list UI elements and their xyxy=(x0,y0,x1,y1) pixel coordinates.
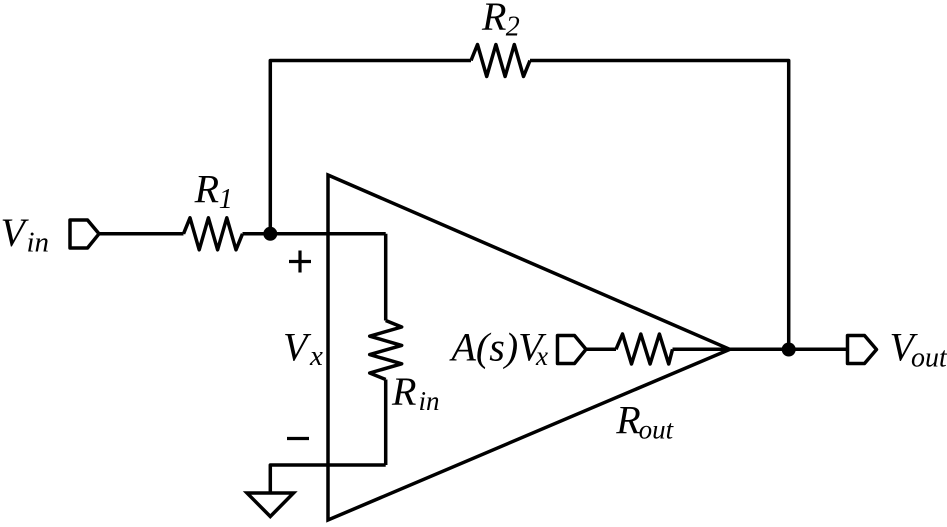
svg-text:in: in xyxy=(27,227,50,259)
resistor Rin xyxy=(370,321,402,380)
label Vin xyxy=(1,210,50,259)
svg-text:2: 2 xyxy=(506,12,520,43)
label A(s)Vx (controlled source value) xyxy=(449,325,549,372)
wire: top feedback right segment xyxy=(530,61,789,350)
label Rout xyxy=(615,398,674,445)
svg-text:A(s)V: A(s)V xyxy=(449,325,548,370)
svg-text:R: R xyxy=(481,0,506,39)
wire: top feedback left segment xyxy=(270,61,471,234)
svg-text:R: R xyxy=(615,398,640,443)
minus sign (inverting input) xyxy=(287,437,309,440)
svg-text:out: out xyxy=(639,415,675,445)
node A (junction dot, input) xyxy=(263,227,277,241)
node B (junction dot, output) xyxy=(782,343,796,357)
op-amp U1 body triangle xyxy=(328,175,730,520)
controlled source A(s)Vx terminal flag xyxy=(558,336,587,364)
plus sign (noninverting input) xyxy=(289,251,311,273)
resistor R1 xyxy=(184,218,243,250)
label Vx xyxy=(283,325,323,373)
resistor Rout xyxy=(616,334,673,364)
svg-text:x: x xyxy=(535,341,548,371)
label Rin xyxy=(391,369,440,416)
port Vin terminal flag xyxy=(70,220,99,248)
ground xyxy=(247,493,294,517)
wire: Rout to output node xyxy=(673,348,847,352)
svg-text:out: out xyxy=(911,343,947,374)
svg-text:R: R xyxy=(194,167,219,212)
label R2 xyxy=(481,0,520,43)
svg-text:in: in xyxy=(419,386,440,416)
label Vout xyxy=(890,325,947,374)
wire: R1 to noninverting input (through node) xyxy=(243,232,386,236)
wire: down to Rin xyxy=(384,234,388,321)
resistor R2 xyxy=(471,45,530,77)
svg-text:R: R xyxy=(391,369,416,414)
port Vout terminal flag xyxy=(848,336,877,364)
wire: Rin to bottom rail xyxy=(384,380,388,466)
svg-text:1: 1 xyxy=(219,184,233,215)
wire: source flag to Rout xyxy=(586,348,616,352)
wire: Vin to R1 xyxy=(99,232,184,236)
wire: bottom rail to ground stem xyxy=(270,465,385,493)
svg-text:x: x xyxy=(309,340,323,372)
label R1 xyxy=(194,167,233,216)
